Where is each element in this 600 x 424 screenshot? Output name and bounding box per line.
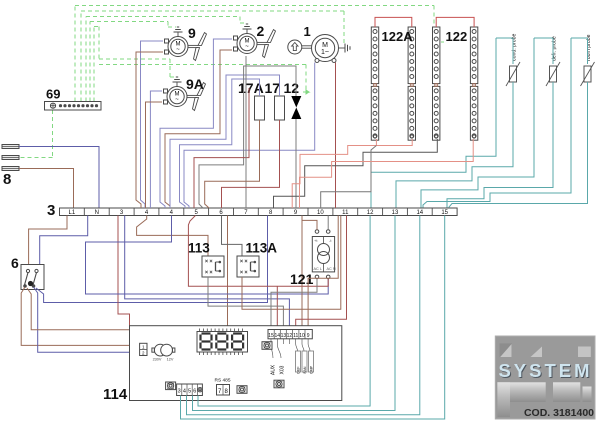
svg-text:69: 69 (46, 87, 60, 102)
svg-text:1: 1 (304, 24, 311, 39)
svg-text:9: 9 (188, 25, 196, 41)
svg-text:M: M (322, 42, 328, 49)
svg-text:10: 10 (317, 210, 324, 216)
svg-text:114: 114 (103, 386, 128, 403)
svg-text:17: 17 (265, 80, 281, 96)
svg-text:11: 11 (342, 210, 349, 216)
svg-text:12V: 12V (167, 358, 174, 362)
svg-text:13: 13 (392, 210, 399, 216)
svg-text:1~: 1~ (321, 49, 329, 56)
svg-text:X03: X03 (280, 365, 286, 374)
svg-text:113A: 113A (246, 241, 278, 256)
svg-text:room probe: room probe (586, 34, 592, 61)
svg-text:N: N (95, 210, 99, 216)
svg-text:15: 15 (441, 210, 448, 216)
svg-text:10: 10 (299, 333, 305, 339)
svg-text:8: 8 (3, 171, 11, 188)
svg-text:14: 14 (275, 333, 281, 339)
svg-text:AC N: AC N (327, 267, 336, 271)
svg-text:defr. probe: defr. probe (552, 36, 558, 61)
svg-text:14: 14 (416, 210, 423, 216)
svg-text:4: 4 (183, 389, 186, 395)
svg-text:~: ~ (175, 97, 179, 103)
svg-text:12: 12 (284, 80, 300, 96)
svg-text:122: 122 (446, 29, 468, 44)
svg-text:DEF: DEF (297, 366, 301, 374)
svg-text:121: 121 (290, 271, 314, 287)
svg-text:AUX: AUX (271, 364, 277, 375)
svg-text:13: 13 (281, 333, 287, 339)
svg-text:L1: L1 (69, 210, 76, 216)
svg-text:6: 6 (193, 389, 196, 395)
svg-text:12: 12 (287, 333, 293, 339)
svg-text:AC L: AC L (314, 267, 322, 271)
svg-text:6: 6 (11, 255, 19, 271)
svg-text:9: 9 (307, 333, 310, 339)
svg-text:113: 113 (188, 241, 210, 256)
svg-text:9A: 9A (186, 76, 204, 92)
svg-text:COD. 3181400: COD. 3181400 (524, 407, 594, 419)
svg-text:122A: 122A (382, 29, 414, 44)
svg-text:12: 12 (367, 210, 374, 216)
svg-text:CMP: CMP (310, 365, 314, 374)
svg-text:FAN: FAN (303, 366, 307, 373)
svg-text:3: 3 (178, 389, 181, 395)
svg-text:15: 15 (268, 333, 274, 339)
svg-text:RS 485: RS 485 (215, 378, 231, 384)
svg-text:2: 2 (257, 23, 265, 39)
svg-text:cond. probe: cond. probe (512, 33, 518, 61)
svg-text:11: 11 (293, 333, 298, 339)
svg-text:SYSTEM: SYSTEM (498, 360, 592, 381)
svg-text:5: 5 (188, 389, 191, 395)
svg-text:~: ~ (245, 44, 249, 50)
svg-text:3: 3 (47, 202, 55, 219)
svg-text:230V: 230V (153, 358, 162, 362)
svg-text:~: ~ (176, 47, 180, 53)
